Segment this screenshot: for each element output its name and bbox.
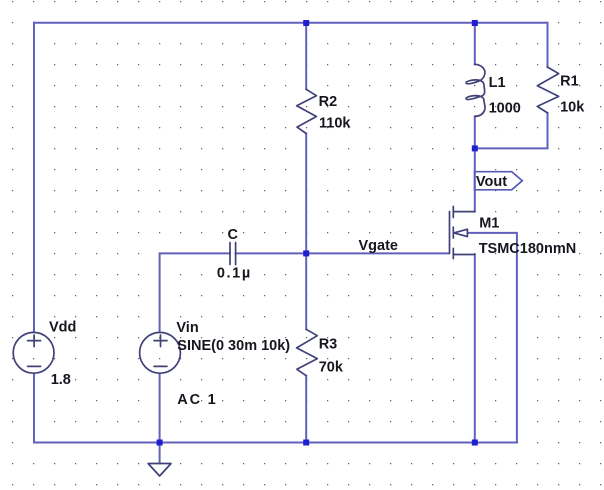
wire bottom rail	[34, 442, 517, 444]
wire M1 source down to rail	[474, 255, 476, 443]
wire R1 top lead	[547, 23, 549, 67]
svg-text:Vout: Vout	[476, 174, 507, 190]
svg-text:R2: R2	[319, 94, 338, 110]
junction M1 source bottom	[472, 440, 478, 446]
svg-text:1000: 1000	[489, 101, 521, 117]
junction at top of L1	[472, 20, 478, 26]
junction R3 bottom	[303, 440, 309, 446]
svg-text:Vin: Vin	[176, 320, 198, 336]
svg-text:SINE(0 30m 10k): SINE(0 30m 10k)	[177, 338, 290, 354]
svg-text:1.8: 1.8	[51, 372, 71, 388]
transistor M1 channel bars	[452, 206, 454, 258]
transistor M1 gate bar	[449, 212, 451, 254]
resistor R3	[297, 329, 318, 375]
svg-text:Vgate: Vgate	[359, 238, 399, 254]
transistor M1 source stub	[453, 254, 475, 256]
transistor M1 bulk arrow	[454, 229, 468, 236]
wire Vin top lead to capacitor	[160, 253, 230, 332]
junction ground node	[157, 440, 163, 446]
wire L1 top lead	[474, 23, 476, 65]
junction node Vgate	[303, 250, 309, 256]
wire R3 bottom lead	[305, 376, 307, 443]
wire ground stem	[159, 443, 161, 464]
svg-text:110k: 110k	[319, 116, 351, 132]
svg-text:R3: R3	[319, 337, 338, 353]
svg-text:TSMC180nmN: TSMC180nmN	[479, 241, 577, 257]
svg-text:M1: M1	[479, 215, 499, 231]
svg-text:0.1µ: 0.1µ	[217, 266, 252, 282]
wire Vdd bottom to rail	[33, 374, 35, 443]
wire node Vout down to M1 drain	[474, 148, 476, 211]
wire R2 bottom to R3 top	[305, 134, 307, 330]
voltage source V1 Vdd circle	[13, 332, 54, 373]
resistor R1	[537, 67, 558, 113]
wire Vgate to M1 gate	[306, 252, 448, 254]
wire R2 top lead	[305, 23, 307, 90]
ground	[148, 464, 171, 477]
inductor L1	[475, 64, 485, 81]
wire top rail	[34, 22, 548, 24]
wire L1 bottom lead	[474, 116, 476, 148]
svg-text:AC 1: AC 1	[177, 392, 217, 408]
flag Vout	[475, 172, 523, 190]
capacitor C plates	[230, 243, 236, 265]
svg-text:C: C	[228, 227, 239, 243]
svg-text:10k: 10k	[560, 100, 585, 116]
resistor R2	[297, 89, 317, 133]
wire M1 bulk to rail	[468, 233, 517, 443]
wire capacitor to node Vgate	[236, 252, 307, 254]
wire left Vdd top lead	[33, 23, 35, 332]
svg-text:70k: 70k	[319, 359, 344, 375]
junction at top of R2	[303, 20, 309, 26]
transistor M1 drain stub	[453, 211, 475, 213]
wire R1 bottom to node Vout	[475, 113, 548, 148]
svg-text:Vdd: Vdd	[49, 320, 76, 336]
svg-text:L1: L1	[489, 75, 506, 91]
wire Vin bottom lead	[159, 374, 161, 443]
voltage source V2 Vin circle	[140, 332, 181, 373]
junction node Vout	[472, 145, 478, 151]
svg-text:R1: R1	[560, 74, 579, 90]
